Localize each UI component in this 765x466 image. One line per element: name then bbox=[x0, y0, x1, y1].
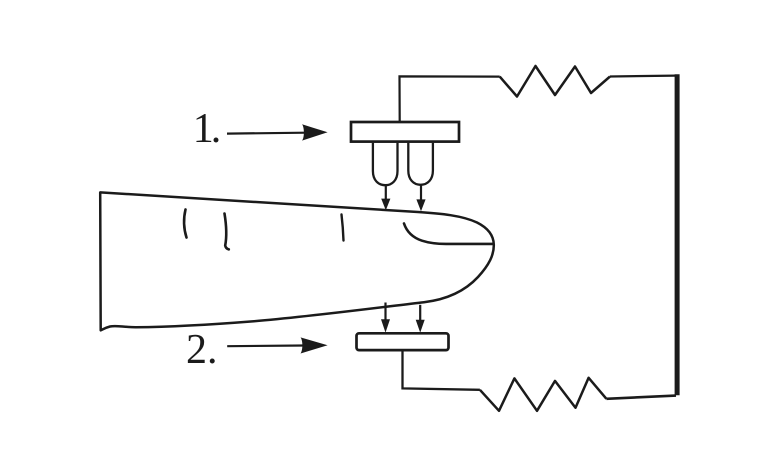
finger outline bbox=[100, 192, 494, 330]
resistor R1 bbox=[500, 66, 610, 97]
wire from resistor R1 to right bus bbox=[610, 74, 676, 77]
wire right bus bbox=[675, 74, 680, 395]
label 2 arrow bbox=[227, 337, 327, 353]
resistor R2 bbox=[480, 378, 607, 411]
finger crease 1 bbox=[184, 210, 186, 238]
label 1 arrow bbox=[227, 124, 328, 140]
photodetector plate (bottom sensor) bbox=[357, 333, 449, 350]
wire from top plate to resistor R1 bbox=[400, 76, 500, 121]
wire from detector to resistor R2 bbox=[403, 350, 480, 390]
svg-text:1.: 1. bbox=[193, 106, 219, 152]
LED 2 bbox=[408, 143, 433, 185]
finger crease 2 bbox=[225, 214, 229, 250]
fingernail bbox=[404, 224, 493, 244]
LED array plate (top sensor) bbox=[351, 122, 459, 142]
finger crease 3 bbox=[342, 215, 344, 241]
wire from resistor R2 to right bus bbox=[606, 396, 676, 399]
svg-text:2.: 2. bbox=[186, 327, 218, 373]
LED 1 bbox=[373, 143, 398, 185]
light arrow from finger to detector (right) bbox=[416, 305, 425, 333]
light arrow from LED 2 into finger bbox=[416, 185, 425, 211]
light arrow from LED 1 into finger bbox=[381, 185, 390, 210]
light arrow from finger to detector (left) bbox=[381, 303, 390, 333]
